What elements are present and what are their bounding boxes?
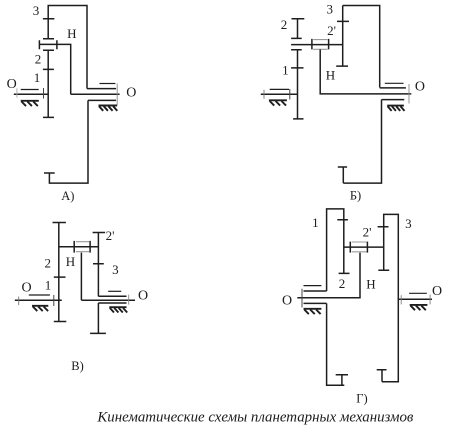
gear 1 (B) bbox=[291, 50, 303, 119]
bearing line right (G) bbox=[409, 292, 427, 294]
sun gear 1 (A) bbox=[43, 69, 54, 117]
ring gear 3 rim (A) bbox=[43, 6, 116, 184]
svg-text:3: 3 bbox=[326, 2, 333, 17]
gear 2' (G) bbox=[378, 227, 390, 270]
svg-text:3: 3 bbox=[405, 216, 412, 231]
svg-text:1: 1 bbox=[45, 277, 52, 292]
bearing line right (B) bbox=[385, 82, 404, 84]
svg-text:А): А) bbox=[61, 189, 74, 203]
label H (V) bbox=[66, 254, 75, 269]
support hatching left (G) bbox=[304, 309, 322, 314]
svg-text:Б): Б) bbox=[350, 188, 361, 202]
label 2' (G) bbox=[363, 225, 372, 240]
bearing line right (V) bbox=[108, 290, 121, 292]
gear 2 (B) bbox=[291, 19, 304, 39]
planet bearing block (V) bbox=[74, 241, 90, 253]
output shaft O right (V) bbox=[81, 295, 135, 305]
planet shaft 2-2' (B) bbox=[291, 44, 343, 46]
svg-text:O: O bbox=[138, 289, 148, 304]
gear 1 rim (G) bbox=[327, 209, 350, 291]
gear 2' (V) bbox=[93, 233, 106, 264]
bearing line right (A) bbox=[100, 83, 116, 85]
label H (B) bbox=[326, 67, 335, 82]
support hatching right (G) bbox=[410, 305, 428, 310]
label O right (V) bbox=[138, 289, 148, 304]
label 3 (V) bbox=[112, 262, 119, 277]
svg-text:H: H bbox=[66, 254, 75, 269]
svg-text:1: 1 bbox=[312, 215, 319, 230]
label V) bbox=[71, 359, 84, 373]
gear 1 hub flanges (G) bbox=[304, 291, 349, 385]
svg-text:2': 2' bbox=[106, 228, 115, 243]
label 2 (G) bbox=[339, 276, 346, 291]
label 2 (V) bbox=[45, 255, 52, 270]
planet shaft 2-2' (V) bbox=[59, 246, 99, 248]
label H (A) bbox=[67, 26, 76, 41]
svg-text:2': 2' bbox=[363, 225, 372, 240]
ring gear 3 housing (B) bbox=[338, 6, 406, 184]
ring gear 3 rim (V) bbox=[90, 264, 126, 334]
support hatching left (B) bbox=[269, 100, 287, 105]
output shaft O right (G) bbox=[398, 295, 432, 305]
label 1 (G) bbox=[312, 215, 319, 230]
label 1 (V) bbox=[45, 277, 52, 292]
bearing line left (B) bbox=[270, 88, 289, 90]
svg-text:1: 1 bbox=[34, 70, 41, 85]
svg-text:3: 3 bbox=[112, 262, 119, 277]
support hatching right (B) bbox=[387, 106, 404, 111]
svg-text:3: 3 bbox=[33, 3, 40, 18]
svg-text:O: O bbox=[282, 293, 292, 308]
svg-text:В): В) bbox=[71, 359, 84, 373]
ring gear 3 rim left (B) bbox=[336, 6, 349, 67]
support hatching right (A) bbox=[99, 106, 118, 111]
label O left (A) bbox=[7, 77, 17, 92]
svg-text:2: 2 bbox=[339, 276, 346, 291]
input shaft O left (B) bbox=[261, 89, 298, 100]
label 1 (B) bbox=[282, 62, 289, 77]
carrier H arm (A) bbox=[39, 44, 70, 94]
label O right (B) bbox=[415, 80, 425, 95]
label 3 (G) bbox=[405, 216, 412, 231]
svg-text:2: 2 bbox=[281, 17, 288, 32]
label 2' (V) bbox=[106, 228, 115, 243]
svg-text:2: 2 bbox=[45, 255, 52, 270]
planet shaft 2-2' (G) bbox=[344, 246, 384, 248]
label A) bbox=[61, 189, 74, 203]
svg-text:2': 2' bbox=[327, 23, 336, 38]
ring gear 3 rim (G) bbox=[377, 214, 399, 381]
label 3 (B) bbox=[326, 2, 333, 17]
label O left (G) bbox=[282, 293, 292, 308]
label B) bbox=[350, 188, 361, 202]
label O right (A) bbox=[126, 85, 136, 100]
label O left (V) bbox=[21, 280, 31, 295]
label G) bbox=[356, 391, 367, 405]
label O right (G) bbox=[432, 284, 442, 299]
bearing line left (G) bbox=[304, 285, 322, 287]
planet bearing block 2' (B) bbox=[312, 39, 329, 50]
input shaft O left (V) bbox=[15, 295, 62, 306]
support hatching left (V) bbox=[32, 306, 48, 311]
carrier H (V) bbox=[80, 253, 82, 301]
svg-text:Г): Г) bbox=[356, 391, 367, 405]
bearing line left (A) bbox=[21, 89, 39, 91]
svg-text:2: 2 bbox=[35, 51, 42, 66]
support hatching left (A) bbox=[21, 101, 39, 106]
label 2' (B) bbox=[327, 23, 336, 38]
svg-text:O: O bbox=[432, 284, 442, 299]
caption bbox=[96, 409, 414, 425]
svg-text:O: O bbox=[415, 80, 425, 95]
planet bearing block on carrier (A) bbox=[39, 40, 57, 49]
bearing line left (V) bbox=[29, 294, 50, 296]
carrier H (B) bbox=[320, 49, 411, 103]
label 2 (A) bbox=[35, 51, 42, 66]
support hatching right (V) bbox=[109, 307, 127, 312]
svg-text:Кинематические схемы планетарн: Кинематические схемы планетарных механиз… bbox=[96, 409, 414, 425]
svg-text:O: O bbox=[7, 77, 17, 92]
svg-text:O: O bbox=[21, 280, 31, 295]
gear 2 and gear 1 shaft line (V) bbox=[53, 223, 67, 322]
carrier H with input shaft (G) bbox=[297, 253, 360, 308]
input shaft O left (A) bbox=[14, 88, 48, 99]
planet gear 2 (A) bbox=[43, 19, 54, 70]
label H (G) bbox=[366, 277, 375, 292]
label 3 (A) bbox=[33, 3, 40, 18]
planet bearing block (G) bbox=[350, 242, 367, 253]
svg-text:H: H bbox=[326, 67, 335, 82]
label 2 (B) bbox=[281, 17, 288, 32]
svg-text:H: H bbox=[366, 277, 375, 292]
output shaft O right (A) bbox=[71, 84, 120, 106]
svg-text:1: 1 bbox=[282, 62, 289, 77]
svg-text:O: O bbox=[126, 85, 136, 100]
label 1 (A) bbox=[34, 70, 41, 85]
svg-text:H: H bbox=[67, 26, 76, 41]
